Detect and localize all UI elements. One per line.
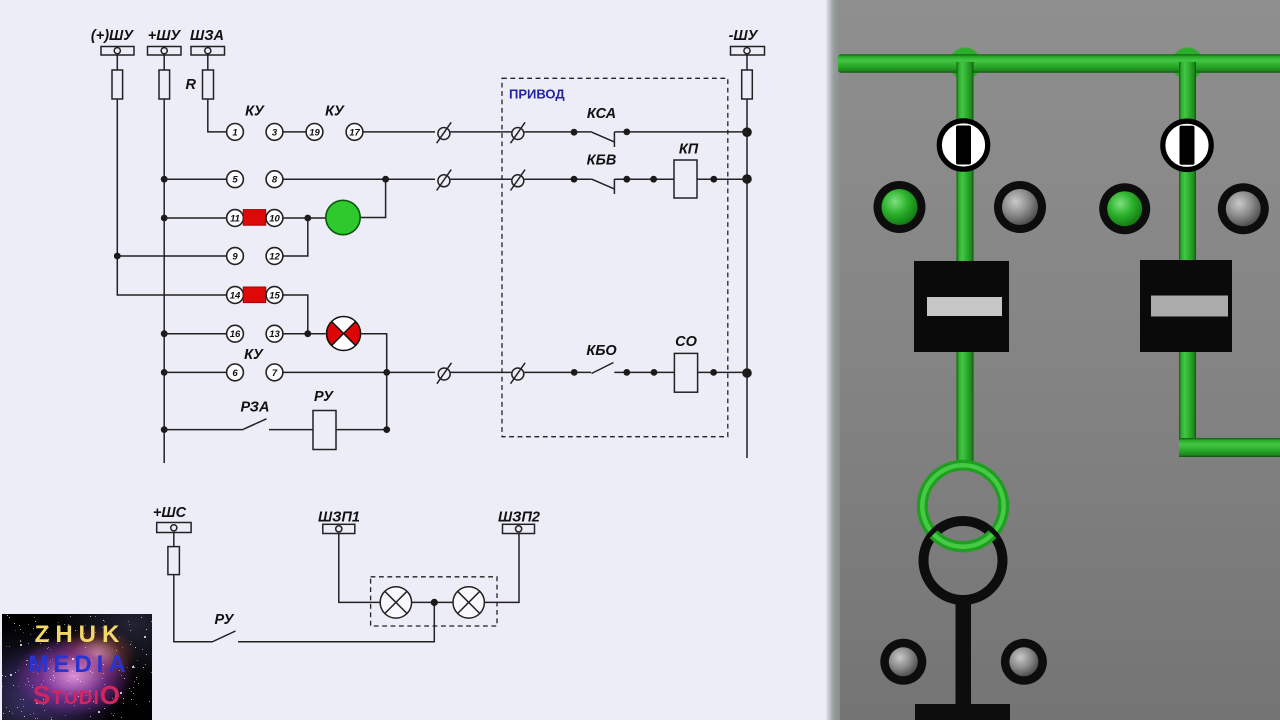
svg-text:РЗА: РЗА (241, 400, 270, 416)
bus +ШУ (148, 28, 182, 55)
fuse F2 (159, 70, 170, 99)
coil РУ (313, 411, 336, 450)
fuse F4 (168, 547, 180, 575)
dashed box ПРИВОД (502, 78, 728, 436)
lamp grey 2 (1218, 183, 1269, 234)
contact РЗА blade open (243, 419, 266, 430)
wire 13 to lamp ЛК (283, 333, 326, 335)
contact РУ blade open (213, 631, 236, 642)
green ring (922, 465, 1003, 546)
branch pipe 2 horizontal (1179, 438, 1280, 457)
resistor R (203, 70, 214, 99)
wire +ШУ to contact 6 (164, 371, 227, 373)
blown-fuse indicator red 14-15 (243, 287, 265, 303)
svg-text:ШЗА: ШЗА (190, 28, 224, 44)
wire plug to КБВ (524, 178, 592, 180)
junction node row6 (304, 330, 311, 337)
plug connector row2 right (511, 170, 526, 191)
node bulge bus-riser 2 (1172, 48, 1204, 80)
plug connector row7 right (511, 363, 526, 384)
junction node row5 (161, 176, 168, 183)
schematic background (0, 0, 832, 720)
node row1 (623, 129, 630, 136)
wire from ШЗА bus to resistor R (207, 55, 209, 70)
svg-text:ШЗП2: ШЗП2 (498, 510, 540, 526)
svg-text:13: 13 (269, 329, 280, 340)
wire between plugs row1 (450, 131, 511, 133)
svg-text:R: R (186, 77, 197, 93)
wire coil СО to -ШУ (698, 371, 747, 373)
lamp ЛК red-white (326, 317, 361, 351)
contact КУ 8 (266, 171, 283, 188)
svg-text:СО: СО (675, 334, 697, 350)
node row2 c (710, 176, 717, 183)
wire КБВ to coil КП (614, 178, 674, 180)
contact КУ 13 (266, 325, 283, 342)
contact КБВ blade (592, 179, 614, 189)
wire between plugs row7 (451, 371, 512, 373)
node row2 a (623, 176, 630, 183)
contact КУ 3 (266, 123, 283, 140)
svg-text:(+)ШУ: (+)ШУ (91, 28, 134, 44)
node row7 c (710, 369, 717, 376)
wire +ШУ to contact 16 (164, 333, 227, 335)
junction node row2 lamp branch (382, 176, 389, 183)
junction node -ШУ row КБО (742, 368, 752, 378)
wire from +ШУ bus to fuse F2 (163, 55, 165, 70)
wire РЗА to coil РУ (269, 429, 313, 431)
node КБО left (571, 369, 578, 376)
bus -ШУ (729, 28, 765, 55)
junction node row3 (304, 215, 311, 222)
key switch 1 (939, 121, 987, 169)
black stem (956, 598, 972, 708)
wire coil РУ to node (336, 429, 387, 431)
wire from -ШУ bus to fuse F3 (746, 55, 748, 70)
bus ШЗА (190, 28, 224, 55)
svg-text:ШЗП1: ШЗП1 (318, 510, 360, 526)
wire +ШС bus to fuse F4 (173, 533, 175, 547)
svg-text:15: 15 (269, 291, 280, 302)
junction node row6 (161, 369, 168, 376)
wire 7 to plug row7 (283, 371, 436, 373)
wire КСА to -ШУ (614, 131, 747, 133)
wire 8 to plug row2 (283, 178, 436, 180)
svg-text:3: 3 (272, 127, 278, 138)
junction node rowРЗА (161, 426, 168, 433)
wire 3 to 19 (283, 131, 307, 133)
contact КУ 5 (227, 171, 244, 188)
blown-fuse indicator red 11-10 (243, 210, 265, 226)
contact КУ 14 (227, 287, 244, 304)
contact КБВ fixed tick (613, 179, 615, 194)
green ring highlight (922, 465, 1003, 546)
fuse F3 (742, 70, 753, 99)
svg-text:КУ: КУ (325, 104, 345, 120)
contact КУ 6 (227, 364, 244, 381)
svg-text:-ШУ: -ШУ (729, 28, 759, 44)
svg-text:КУ: КУ (245, 104, 265, 120)
svg-text:КБВ: КБВ (587, 153, 617, 169)
node КБВ left (571, 176, 578, 183)
contact КУ 11 (227, 210, 244, 227)
riser pipe 1 (957, 62, 974, 466)
wire (+)ШУ to contact 9 done above; contact КУ 9 (227, 248, 244, 265)
contact КУ 7 (266, 364, 283, 381)
svg-text:РУ: РУ (314, 389, 334, 405)
contact КУ 1 (227, 123, 244, 140)
wire (+)ШУ vertical feeder (117, 99, 227, 295)
contact КУ 19 (306, 123, 323, 140)
contact КУ 12 (266, 248, 283, 265)
svg-text:+ШУ: +ШУ (148, 28, 182, 44)
junction node row16 (161, 330, 168, 337)
bus ШЗП1 (318, 510, 360, 534)
wire +ШУ vertical feeder (163, 99, 165, 463)
green ring overlap arc highlight (934, 534, 993, 547)
green ring overlap arc (934, 534, 993, 547)
plug connector row1 right (511, 122, 526, 143)
panel left edge shadow (826, 0, 840, 720)
svg-text:ПРИВОД: ПРИВОД (509, 87, 565, 102)
logo ZHUK MEDIA STUDIO (2, 614, 152, 720)
fuse F1 (112, 70, 123, 99)
svg-text:7: 7 (272, 368, 278, 379)
lamp ЛЗ green (326, 200, 360, 234)
svg-text:12: 12 (269, 252, 280, 263)
wire РУ contact to lamps (238, 602, 434, 641)
wire -ШУ vertical feeder (746, 99, 748, 458)
node row2 b (650, 176, 657, 183)
contact КСА blade (592, 132, 614, 142)
svg-text:11: 11 (230, 214, 240, 225)
bus (+)ШУ (91, 28, 134, 55)
contact КУ 10 (266, 210, 283, 227)
svg-text:1: 1 (232, 127, 237, 138)
green bus bar horizontal (838, 54, 1280, 73)
wire lamp ЛК down to rows 6-7 (360, 334, 387, 430)
wire Л1 to Л2 (412, 601, 453, 603)
wire +ШС feeder to РУ contact (174, 575, 213, 642)
junction node row7 (383, 369, 390, 376)
svg-text:5: 5 (232, 175, 238, 186)
contact КУ 16 (227, 325, 244, 342)
contact КБО blade open (592, 363, 614, 374)
svg-text:КУ: КУ (244, 347, 264, 363)
wire Л2 to ШЗП2 (484, 534, 519, 603)
node row7 b (651, 369, 658, 376)
svg-text:КП: КП (679, 142, 699, 158)
svg-text:14: 14 (230, 291, 241, 302)
contact КУ 15 (266, 287, 283, 304)
lamp grey bottom right (1001, 639, 1047, 685)
svg-text:19: 19 (309, 127, 320, 138)
breaker box 2 (1140, 260, 1232, 352)
wire 15 down to row6 (283, 295, 308, 334)
node row7 a (623, 369, 630, 376)
lamp green 2 (1099, 183, 1150, 234)
wire plug to КБО (524, 371, 591, 373)
breaker box 1 (914, 261, 1009, 352)
wire 10 to lamp ЛЗ (283, 217, 326, 219)
plug connector row1 left (437, 122, 452, 143)
wire ШЗП1 down to lamp Л1 (339, 534, 380, 603)
junction node lamps (431, 599, 438, 606)
lamp Л2 (453, 587, 484, 618)
dashed box lamps (371, 577, 497, 626)
svg-text:10: 10 (269, 214, 280, 225)
svg-text:8: 8 (272, 175, 278, 186)
contact КУ 17 (346, 123, 363, 140)
wire from R to contact 1 (208, 99, 227, 132)
bus ШЗП2 (498, 510, 540, 534)
svg-text:+ШС: +ШС (153, 505, 187, 521)
wire lamp ЛЗ up to row2 (360, 179, 385, 217)
coil КП (674, 160, 697, 198)
svg-text:РУ: РУ (215, 612, 235, 628)
wire from (+)ШУ feeder to contact 9 (117, 255, 227, 257)
black ring (924, 521, 1003, 600)
wire КБО to coil СО (614, 371, 674, 373)
node КСА left (571, 129, 578, 136)
lamp grey 1 (994, 181, 1046, 233)
junction node -ШУ row КБВ (742, 174, 752, 184)
svg-text:КБО: КБО (586, 343, 617, 359)
node bulge bus-riser 1 (949, 48, 981, 80)
wire coil КП to -ШУ (697, 178, 747, 180)
lamp green 1 (874, 181, 926, 233)
wire 12 up to row3 (283, 218, 308, 256)
black base (915, 704, 1010, 720)
svg-text:6: 6 (232, 368, 238, 379)
bus +ШС (153, 505, 191, 533)
lamp Л1 (380, 587, 411, 618)
wire +ШУ to contact 5 (164, 178, 227, 180)
plug connector row7 left (437, 363, 452, 384)
wire from (+)ШУ bus to fuse F1 (116, 55, 118, 70)
junction node on (+)ШУ feeder (114, 253, 121, 260)
contact КСА fixed tick (613, 132, 615, 147)
junction node row11 (161, 215, 168, 222)
lamp grey bottom left (880, 639, 926, 685)
wire between plugs row2 (450, 178, 511, 180)
panel background (830, 0, 1280, 720)
wire 17 to plug row1 (363, 131, 436, 133)
junction node -ШУ row КСА (742, 127, 752, 137)
wire +ШУ to РЗА switch (164, 429, 243, 431)
plug connector row2 left (437, 170, 452, 191)
svg-text:9: 9 (232, 252, 238, 263)
svg-text:16: 16 (230, 329, 241, 340)
junction node РУ row (383, 426, 390, 433)
coil СО (674, 353, 697, 392)
wire +ШУ to contact 11 (164, 217, 227, 219)
svg-text:17: 17 (349, 127, 360, 138)
svg-text:КСА: КСА (587, 106, 616, 122)
riser pipe 2 (1179, 62, 1196, 452)
key switch 2 (1163, 121, 1211, 169)
wire plug to КСА (524, 131, 592, 133)
